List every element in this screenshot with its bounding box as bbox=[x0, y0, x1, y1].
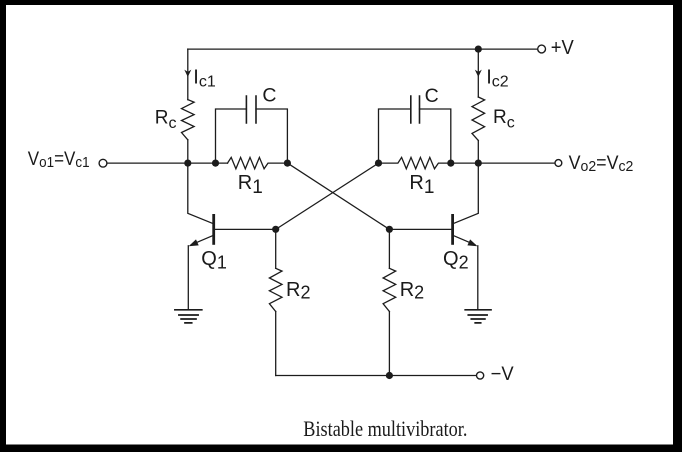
node R1-C left bbox=[212, 160, 219, 167]
wire top rail bbox=[188, 48, 538, 50]
transistor Q2 bar bbox=[451, 215, 454, 243]
resistor R1 right bbox=[379, 157, 451, 168]
capacitor C left plates bbox=[246, 96, 256, 123]
transistor Q2 emitter diagonal bbox=[454, 236, 475, 245]
transistor Q2 emitter arrow bbox=[467, 239, 477, 246]
wire right collector drop bbox=[477, 49, 479, 97]
wire Q2 collector bbox=[454, 163, 478, 223]
wire Q2 base bbox=[389, 228, 451, 230]
wire left collector drop bbox=[187, 49, 189, 100]
svg-text:Q1: Q1 bbox=[201, 248, 227, 272]
resistor R2 right bbox=[383, 268, 396, 311]
svg-text:+V: +V bbox=[551, 37, 575, 59]
node top rail junction bbox=[475, 46, 482, 53]
terminal +V bbox=[538, 45, 546, 53]
wire Q1 base bbox=[215, 228, 276, 230]
wire C right branch right side bbox=[420, 109, 451, 163]
svg-text:R2: R2 bbox=[286, 279, 310, 303]
resistor Rc right bbox=[472, 97, 485, 141]
transistor Q1 bar bbox=[212, 215, 215, 243]
wire Vo1 lead bbox=[107, 162, 228, 164]
node collector Q2 bbox=[475, 160, 482, 167]
wire Rc left to node bbox=[187, 140, 189, 163]
current arrow Ic1 bbox=[184, 70, 191, 77]
node Q2 base junction bbox=[386, 226, 393, 233]
node R1-C right bbox=[447, 160, 454, 167]
resistor R2 left bbox=[269, 268, 282, 311]
wire cross-couple B bbox=[276, 163, 379, 229]
wire R2 right to bottom rail bbox=[388, 312, 390, 376]
wire bottom rail bbox=[276, 375, 477, 377]
terminal -V bbox=[477, 372, 484, 379]
svg-text:C: C bbox=[262, 85, 276, 107]
wire Q2 emitter bbox=[477, 246, 479, 310]
wire C left branch bbox=[216, 109, 247, 163]
svg-text:Q2: Q2 bbox=[443, 248, 469, 272]
wire Q2 base junction to R2 bbox=[388, 229, 390, 268]
svg-text:Bistable multivibrator.: Bistable multivibrator. bbox=[303, 416, 467, 441]
terminal Vo2 bbox=[555, 160, 562, 167]
wire C right branch bbox=[379, 109, 411, 163]
node cross A start bbox=[284, 160, 291, 167]
ground right bbox=[465, 310, 491, 323]
ground left bbox=[175, 310, 202, 323]
svg-text:−V: −V bbox=[491, 363, 514, 385]
node bottom rail junction bbox=[386, 372, 393, 379]
node cross B start bbox=[375, 160, 382, 167]
wire cross-couple A bbox=[287, 163, 389, 229]
svg-text:C: C bbox=[425, 85, 439, 107]
node Q1 base junction bbox=[272, 226, 279, 233]
node collector Q1 bbox=[184, 160, 191, 167]
wire R2 left to bottom rail bbox=[275, 312, 277, 376]
wire C left branch right side bbox=[256, 109, 287, 163]
wire Vo2 lead bbox=[451, 162, 555, 164]
transistor Q1 emitter arrow bbox=[189, 239, 199, 246]
wire Rc right to node bbox=[477, 141, 479, 164]
current arrow Ic2 bbox=[475, 70, 482, 77]
resistor Rc left bbox=[182, 100, 195, 140]
wire Q1 base junction to R2 bbox=[275, 229, 277, 268]
terminal Vo1 bbox=[99, 159, 107, 167]
transistor Q1 emitter diagonal bbox=[192, 236, 213, 245]
wire Q1 collector bbox=[188, 163, 213, 223]
wire Q1 emitter bbox=[187, 246, 189, 310]
capacitor C right plates bbox=[411, 96, 420, 123]
svg-text:R2: R2 bbox=[400, 279, 424, 303]
resistor R1 left bbox=[228, 157, 288, 168]
